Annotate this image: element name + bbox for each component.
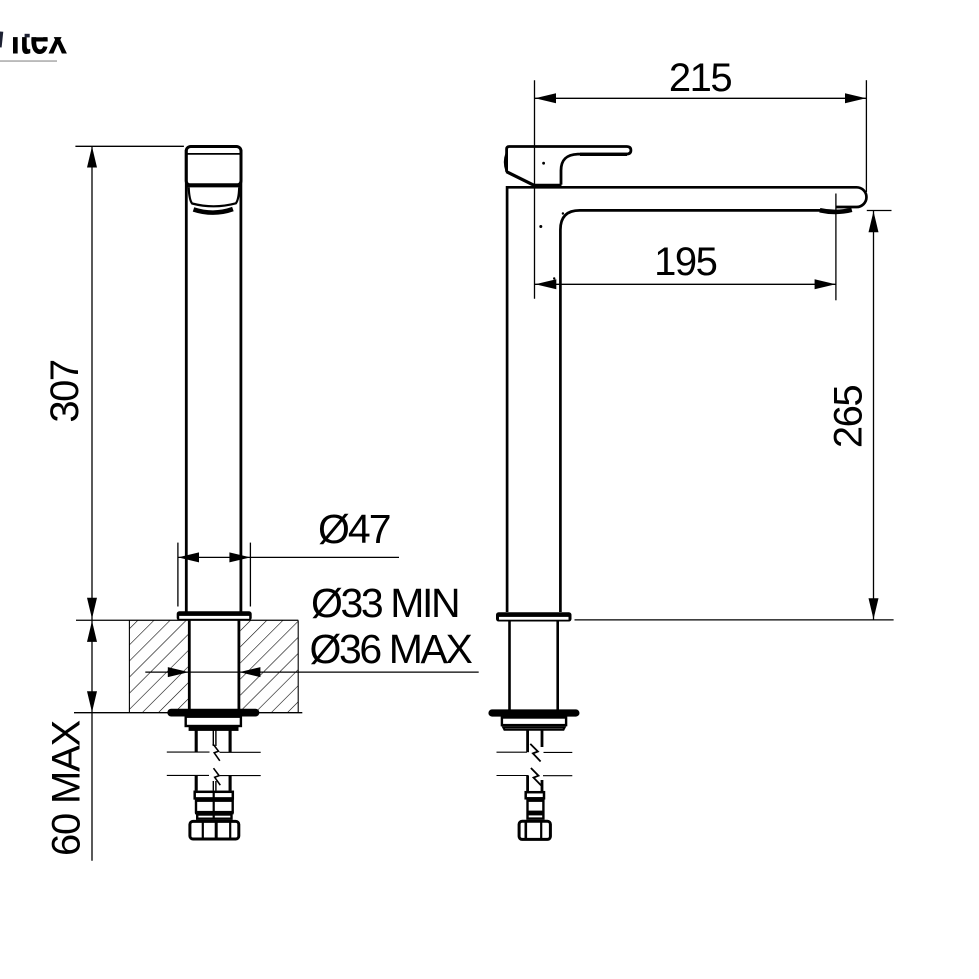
aerator dark arc [194,209,233,213]
locknut step [503,727,564,729]
break line 1 [497,751,528,753]
dim 215/195 center extension line [534,80,536,299]
threaded shank right line [556,622,559,711]
locknut [502,718,566,726]
svg-text:Ø47: Ø47 [318,506,390,552]
rod break zigzag lower [214,768,221,785]
dim O47 line [178,556,399,558]
connector ferrule [526,792,544,798]
top cap bottom thick line [185,183,242,187]
dim 215 arrow right [845,93,866,103]
break line 1 [167,751,210,753]
right view group [488,147,866,840]
logo left edge letter fragment [0,31,3,47]
rod break zigzag upper [213,744,220,761]
dim 215 right extension line [865,80,867,192]
dim 265 top extension line [867,210,892,212]
hose break zigzag lower [531,768,541,786]
hose left line lower [526,776,529,792]
hose right line upper [541,730,544,747]
hex nut face lines [202,823,204,840]
threaded shank right line [237,620,240,709]
counter hatch left border [128,620,130,712]
connector body bold bottom [527,811,545,814]
dim O47 left extension line [177,543,179,607]
faucet body left edge [185,150,188,612]
logo text fragment "itex" (cropped) [0,0,120,65]
dim O47 right extension line [249,543,251,607]
connector band [197,815,231,819]
dim 265 arrow down [869,598,879,619]
dim O33/O36 arrow right-pointing [168,667,189,677]
locknut [186,717,241,726]
faucet body right edge [239,150,242,612]
bottom washer pill [488,709,579,716]
connector body [528,801,544,812]
logo fragment group [0,0,120,65]
handle lever and base outline [507,147,631,185]
hose right outer line lower [229,776,232,791]
hex nut [519,821,550,839]
connector ferrule [195,792,233,799]
threaded rod lines lower [212,781,214,791]
hose left outer line upper [195,730,198,752]
threaded shank left line [508,622,511,711]
svg-text:307: 307 [43,360,87,422]
counter section hatch left [130,620,189,712]
top cap inner line [188,153,240,155]
dim 307 and 60MAX vertical line [91,146,93,860]
dim 265 arrow up [869,211,879,232]
mounting flange plate side [496,612,572,621]
svg-text:Ø33 MIN: Ø33 MIN [311,580,458,626]
svg-text:Ø36 MAX: Ø36 MAX [310,626,473,672]
connector center line [213,791,215,820]
aerator shroud outline [189,187,240,206]
dim 195 right extension line [835,194,837,301]
hose right line lower [541,780,544,791]
threaded shank left line [188,620,191,709]
threaded rod lines upper [212,730,214,746]
connector body [196,801,233,812]
svg-text:215: 215 [669,56,731,100]
dim 307 arrow down [87,598,97,619]
hose break zigzag upper [530,744,540,762]
counter top line [76,619,298,621]
left view group [74,147,302,841]
hose left outer line lower [195,776,198,791]
dim O47 arrow right [229,552,250,562]
hex nut [190,821,239,839]
logo gray underline fragment [0,60,57,62]
bottom washer pill [167,709,259,717]
dimensions group [43,56,894,861]
hose right outer line upper [229,730,232,752]
break line 2 [167,774,209,776]
spout underside and body right edge [560,210,821,612]
handle left edge bulge [505,154,507,171]
connector body bold bottom [195,812,234,815]
hex nut face lines [524,822,527,839]
dim 265 bottom extension line [575,619,894,621]
svg-text:265: 265 [826,386,870,448]
dim 195 arrow left [535,279,556,289]
small dots [539,162,564,280]
dim O47 arrow left [178,552,199,562]
spout top and rounded tip [507,187,866,612]
counter thickness arrow down [87,691,97,712]
counter hatch right border [297,620,299,712]
counter bottom line [74,712,302,714]
dim 307 top extension line [75,145,183,147]
svg-text:60 MAX: 60 MAX [45,720,89,856]
handle lever underside thickening [580,153,627,156]
dim 215 line [535,97,866,99]
dim O33/O36 leader line [145,671,478,673]
dim O33/O36 arrow left-pointing [239,667,260,677]
dim 307 arrow up [87,147,97,168]
logo t-stem upper fragment [25,34,30,38]
handle base front diagonal [506,172,535,186]
svg-text:195: 195 [654,240,716,284]
counter section hatch right [240,620,298,712]
connector band [528,814,544,818]
mounting flange plate [177,611,252,620]
locknut step [190,727,237,729]
dim 195 arrow right [815,279,836,289]
dim 195 line [535,283,836,285]
top cap outline [186,147,241,186]
counter thickness arrow up [87,621,97,642]
handle base bottom edge [534,184,562,187]
break line 2 [497,775,529,777]
dim 265 vertical line [873,211,875,620]
dim 215 arrow left [535,93,556,103]
hose left line upper [526,730,529,752]
spout tip aerator dark bar [820,210,852,212]
